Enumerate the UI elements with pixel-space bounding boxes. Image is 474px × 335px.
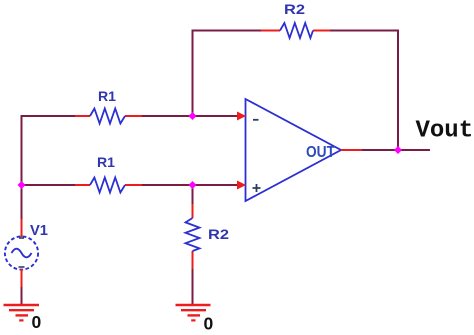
svg-text:0: 0 (204, 314, 214, 334)
resistor R2 (middle, vertical) zigzag (186, 218, 200, 251)
junction dot (middle column / plus row) (189, 181, 197, 189)
resistor R2 (feedback, top) leads (261, 30, 330, 32)
wire: output row to Vout stub (362, 149, 430, 151)
op-amp minus input mark (253, 119, 259, 121)
wire: middle column junction down to R2 (192, 185, 194, 204)
voltage source V1 body (dashed circle) (5, 236, 38, 269)
wire: middle column R2 to ground (192, 269, 194, 304)
V1 plus mark (top, inside circle) (19, 237, 24, 239)
V1 sine wave (12, 249, 32, 258)
resistor R1 (top) zigzag (90, 109, 125, 124)
wire: plus-input row, left of R1 (21, 184, 76, 186)
op-amp plus input pin arrow (237, 181, 246, 190)
junction dot (feedback column / minus row) (189, 112, 197, 120)
resistor R1 (bottom) zigzag (90, 178, 125, 193)
junction dot (output node) (394, 146, 402, 154)
svg-text:V1: V1 (30, 222, 48, 239)
wire: top-left corner vertical (input column) (21, 115, 23, 185)
svg-text:R2: R2 (284, 1, 305, 17)
op-amp U1 triangle (246, 99, 342, 201)
op-amp output pin lead (341, 149, 362, 151)
op-amp minus input pin arrow (237, 112, 246, 121)
ground (left, under V1) (4, 305, 40, 320)
svg-text:OUT: OUT (306, 144, 335, 161)
wire: top rail left segment (192, 30, 262, 32)
svg-text:R1: R1 (98, 88, 116, 104)
ground (middle, under R2) (176, 305, 211, 320)
wire: top rail right segment (330, 30, 399, 32)
wire: minus-input row, left of R1 (21, 115, 76, 117)
resistor R1 (top) leads (75, 115, 142, 117)
resistor R1 (bottom) leads (75, 184, 142, 186)
V1 minus mark (bottom, inside circle) (19, 266, 25, 268)
V1 source bottom pin lead (21, 269, 23, 287)
op-amp plus input mark (253, 184, 261, 192)
wire: plus-input row, R1 to op-amp (142, 184, 238, 186)
wire: left column junction down to V1 (21, 185, 23, 219)
svg-text:Vout: Vout (416, 118, 474, 145)
wire: minus-input row, R1 to op-amp (142, 115, 238, 117)
V1 source top pin lead (21, 219, 23, 237)
resistor R2 (feedback, top) zigzag (280, 23, 313, 38)
junction dot (left column / plus row) (18, 181, 26, 189)
resistor R2 (middle, vertical) leads (192, 204, 194, 269)
svg-text:R1: R1 (97, 154, 115, 170)
wire: V1 to left ground (21, 287, 23, 304)
svg-text:R2: R2 (208, 226, 229, 242)
wire: feedback right vertical (top rail to output row) (397, 30, 399, 151)
svg-text:0: 0 (32, 312, 42, 332)
wire: feedback left vertical (top rail to minus-input row) (192, 31, 194, 117)
